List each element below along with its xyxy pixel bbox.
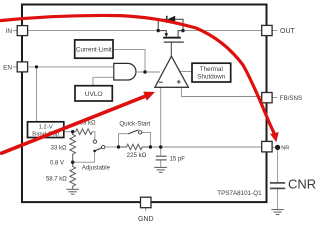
svg-text:1.2-V: 1.2-V — [39, 125, 53, 131]
svg-text:33 kΩ: 33 kΩ — [51, 146, 67, 152]
svg-text:EN: EN — [3, 64, 12, 71]
svg-text:CNR: CNR — [288, 176, 316, 191]
svg-text:225 kΩ: 225 kΩ — [127, 152, 147, 159]
svg-text:Shutdown: Shutdown — [197, 73, 226, 80]
svg-text:0.8 V: 0.8 V — [50, 161, 64, 167]
svg-text:15 pF: 15 pF — [170, 157, 186, 163]
svg-text:NR: NR — [281, 146, 289, 152]
svg-text:Quick-Start: Quick-Start — [119, 121, 150, 128]
svg-text:58.7 kΩ: 58.7 kΩ — [46, 176, 67, 182]
svg-text:UVLO: UVLO — [85, 91, 103, 98]
svg-text:GND: GND — [138, 216, 154, 223]
svg-text:Adjustable: Adjustable — [82, 165, 111, 171]
svg-text:Current-Limit: Current-Limit — [76, 46, 112, 53]
svg-text:Thermal: Thermal — [200, 66, 223, 73]
svg-text:IN: IN — [6, 28, 13, 35]
svg-text:TPS7A8101-Q1: TPS7A8101-Q1 — [217, 190, 262, 197]
svg-text:OUT: OUT — [280, 28, 296, 35]
svg-text:FB/SNS: FB/SNS — [280, 95, 302, 102]
